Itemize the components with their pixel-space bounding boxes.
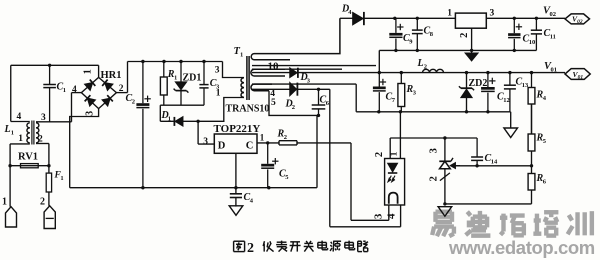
V02 rectified rail — [340, 17, 456, 20]
opto pin 1 wire — [390, 112, 401, 159]
svg-text:4: 4 — [250, 198, 254, 205]
svg-text:2: 2 — [247, 240, 254, 256]
T1 primary pin 1 wire — [216, 89, 244, 122]
plug terminal 2 — [40, 197, 55, 229]
svg-text:3: 3 — [429, 148, 440, 153]
svg-text:TOP221Y: TOP221Y — [214, 123, 261, 135]
resistor R3 — [398, 73, 417, 112]
V02 output label — [543, 6, 556, 19]
regulator pin 2 wire — [471, 28, 473, 50]
T1 pin 10 wire — [252, 61, 376, 73]
capacitor C10 electrolytic — [508, 18, 535, 50]
T1 bias top wire — [252, 83, 356, 85]
svg-text:1: 1 — [390, 151, 400, 156]
T1 primary winding — [241, 78, 244, 98]
svg-text:6: 6 — [543, 179, 547, 186]
HV+ rail — [128, 61, 223, 63]
resistor R6 — [528, 166, 547, 204]
diode D1 — [160, 105, 224, 126]
capacitor C1 — [43, 65, 66, 122]
svg-text:1: 1 — [168, 116, 171, 123]
svg-text:HR1: HR1 — [101, 70, 122, 81]
svg-text:14: 14 — [491, 159, 498, 166]
V02 return rail — [379, 49, 536, 52]
TOP221Y C pin label — [246, 141, 254, 152]
HR1 pin 4 wire — [72, 85, 82, 122]
capacitor C7 electrolytic — [373, 73, 396, 112]
capacitor C8 — [412, 18, 434, 50]
svg-text:TRANS10: TRANS10 — [226, 104, 270, 115]
caption 图2 仪表开关电源电路 — [234, 240, 368, 256]
V01 connector — [565, 69, 590, 81]
svg-text:www.edatop.com: www.edatop.com — [448, 237, 595, 258]
bias return wire — [316, 115, 318, 187]
TOP221Y pin 3 wire (drain) — [198, 121, 214, 147]
voltage regulator U2 — [447, 9, 494, 38]
svg-text:02: 02 — [550, 11, 557, 18]
HR1 pin 3 wire — [70, 109, 99, 188]
svg-text:1: 1 — [60, 175, 63, 182]
opto pin 3 wire — [373, 205, 389, 220]
fuse F1 — [46, 171, 63, 206]
D2 output wire — [297, 88, 329, 90]
opto pin 4 wire — [386, 205, 401, 227]
bridge diode top-right — [102, 80, 112, 91]
watermark text — [432, 211, 592, 236]
HR1 pin 2 wire — [116, 62, 127, 95]
TOP221Y D pin label — [218, 141, 226, 152]
svg-text:2: 2 — [424, 64, 427, 71]
HR1 label — [101, 70, 122, 81]
svg-text:3: 3 — [413, 90, 417, 97]
inductor L2 — [417, 58, 444, 73]
svg-text:1: 1 — [240, 52, 243, 59]
svg-text:6: 6 — [326, 100, 330, 107]
T1 pin 4 wire — [252, 89, 290, 99]
ground (V02) — [465, 50, 477, 61]
resistor R2 — [266, 129, 297, 145]
zener diode ZD2 — [459, 73, 488, 112]
svg-text:3: 3 — [215, 66, 220, 76]
pin10 riser — [378, 50, 380, 72]
T1 core — [247, 56, 249, 100]
svg-text:2: 2 — [119, 84, 124, 94]
reference wire — [455, 164, 533, 167]
V01 output label — [544, 61, 557, 74]
resistor R1 — [160, 60, 177, 105]
IC U1 TOP221Y box — [214, 123, 261, 154]
svg-text:4: 4 — [348, 9, 352, 16]
svg-text:2: 2 — [284, 134, 287, 141]
diode D3 — [290, 68, 311, 85]
TOP221Y pin 1 wire (control) — [257, 133, 279, 143]
svg-text:V01: V01 — [573, 70, 584, 81]
capacitor C12 electrolytic — [481, 73, 510, 112]
svg-text:4: 4 — [386, 213, 398, 219]
svg-text:1: 1 — [216, 89, 221, 99]
svg-text:3: 3 — [84, 111, 95, 116]
resistor R5 — [528, 104, 547, 166]
feedback bottom rail — [443, 202, 531, 205]
node C1 top — [48, 64, 51, 67]
svg-text:8: 8 — [430, 31, 434, 38]
svg-text:11: 11 — [550, 34, 556, 41]
capacitor C14 — [471, 138, 498, 166]
svg-text:L: L — [4, 124, 11, 135]
svg-text:ZD1: ZD1 — [183, 73, 202, 84]
capacitor C4 — [230, 188, 254, 207]
svg-text:5: 5 — [271, 98, 276, 108]
regulator output wire — [486, 17, 565, 20]
primary bottom rail — [70, 187, 317, 189]
HR1 pin 1 wire — [82, 65, 98, 77]
node D1-drain — [196, 120, 199, 123]
capacitor C3 — [199, 60, 220, 105]
svg-text:1: 1 — [260, 133, 265, 143]
svg-text:RV1: RV1 — [18, 152, 38, 163]
svg-text:2: 2 — [132, 99, 135, 106]
svg-text:5: 5 — [285, 174, 289, 181]
bridge rectifier HR1 diamond — [81, 77, 116, 108]
svg-text:01: 01 — [551, 67, 558, 74]
TOP221Y source wire — [234, 153, 237, 189]
L1 pin 3 stub — [36, 113, 72, 123]
bridge diode bottom-left — [85, 95, 96, 106]
ground (feedback) — [438, 207, 452, 217]
svg-text:2: 2 — [292, 104, 295, 111]
capacitor C13 — [504, 73, 529, 112]
TRANS10 label — [226, 104, 270, 115]
svg-text:3: 3 — [41, 113, 46, 123]
svg-text:D: D — [218, 141, 226, 152]
inductor L1 common-mode choke — [4, 121, 39, 145]
V01 rail — [252, 71, 565, 74]
wire top-left AC loop — [11, 65, 99, 121]
opto feedback lower wire — [330, 89, 401, 227]
optocoupler U3 box — [385, 159, 405, 206]
T1 bias winding C — [251, 84, 272, 91]
capacitor C11 — [531, 18, 556, 50]
T1 pin 5 wire — [269, 91, 319, 116]
snubber bottom wire — [160, 104, 204, 106]
ground (primary) — [229, 206, 243, 216]
svg-text:L: L — [417, 58, 424, 69]
svg-text:2: 2 — [459, 33, 470, 38]
T1 secondary winding A — [251, 18, 340, 60]
svg-text:2: 2 — [38, 135, 43, 145]
secondary common rail — [356, 110, 511, 113]
plug terminal 1 — [2, 197, 17, 228]
transformer T1 label — [234, 46, 244, 59]
bridge diode top-left — [85, 80, 96, 91]
svg-text:3: 3 — [203, 137, 208, 147]
feedback top wire — [390, 136, 477, 139]
optocoupler LED — [388, 163, 397, 181]
svg-text:5: 5 — [543, 138, 547, 145]
svg-text:1: 1 — [447, 9, 452, 19]
TL431 shunt regulator — [428, 138, 460, 204]
resistor R4 — [528, 73, 547, 134]
diode D2 — [285, 83, 298, 111]
svg-text:10: 10 — [268, 61, 280, 73]
ground (secondary) — [504, 128, 518, 138]
svg-text:2: 2 — [374, 152, 385, 157]
svg-text:12: 12 — [503, 97, 510, 104]
svg-text:1: 1 — [2, 197, 7, 208]
optocoupler phototransistor — [389, 193, 398, 204]
svg-text:1: 1 — [63, 87, 66, 94]
C13 ground wire — [510, 112, 512, 128]
varistor RV1 — [8, 152, 50, 168]
svg-text:7: 7 — [392, 97, 396, 104]
capacitor C6 — [312, 88, 330, 118]
V02 connector — [565, 14, 590, 25]
svg-text:4: 4 — [17, 112, 22, 122]
bias clamp wire — [355, 84, 357, 112]
svg-text:1: 1 — [11, 130, 14, 137]
svg-text:C: C — [246, 141, 254, 152]
capacitor C5 electrolytic — [261, 143, 289, 190]
svg-text:4: 4 — [543, 95, 547, 102]
capacitor C9 electrolytic — [389, 18, 413, 50]
L1 pin 4 stub — [11, 112, 30, 122]
R2 output wire — [297, 143, 389, 220]
svg-text:9: 9 — [409, 39, 413, 46]
T1 secondary winding B — [251, 69, 342, 76]
T1 primary pin 3 wire — [215, 62, 244, 78]
watermark url — [448, 237, 595, 258]
zener diode ZD1 — [174, 60, 202, 105]
svg-text:1: 1 — [174, 75, 177, 82]
diode D4 — [341, 4, 364, 26]
svg-text:1: 1 — [18, 134, 23, 144]
L1 pin 2 stub — [36, 135, 49, 174]
svg-text:V02: V02 — [572, 15, 583, 26]
svg-text:3: 3 — [373, 213, 385, 219]
L1 pin 1 stub — [10, 134, 30, 207]
opto pin 2 wire — [374, 138, 390, 159]
svg-text:2: 2 — [40, 197, 45, 208]
svg-text:10: 10 — [529, 39, 536, 46]
bridge diode bottom-right — [102, 95, 113, 106]
svg-text:2: 2 — [428, 176, 439, 181]
svg-text:1: 1 — [82, 69, 93, 74]
capacitor C2 electrolytic — [126, 60, 151, 190]
svg-text:4: 4 — [72, 85, 77, 95]
svg-text:3: 3 — [490, 9, 495, 19]
